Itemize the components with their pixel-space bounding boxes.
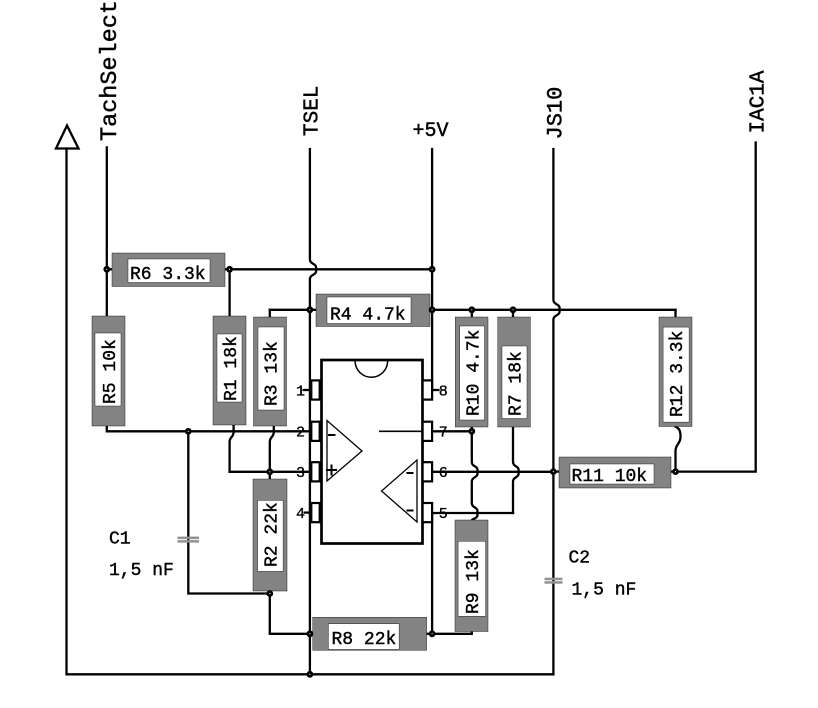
svg-text:1: 1	[296, 383, 305, 400]
svg-text:6: 6	[439, 465, 448, 482]
svg-text:4: 4	[296, 506, 305, 523]
svg-text:R10 4.7k: R10 4.7k	[465, 330, 485, 416]
svg-text:R6 3.3k: R6 3.3k	[130, 265, 206, 285]
svg-text:R9 13k: R9 13k	[464, 549, 484, 614]
svg-text:7: 7	[439, 425, 448, 442]
svg-text:R2 22k: R2 22k	[263, 502, 283, 567]
svg-text:R8 22k: R8 22k	[332, 630, 397, 650]
svg-text:TSEL: TSEL	[302, 86, 325, 136]
svg-text:R4 4.7k: R4 4.7k	[330, 306, 406, 326]
svg-text:R11 10k: R11 10k	[572, 467, 648, 487]
svg-text:IAC1A: IAC1A	[748, 70, 771, 133]
svg-text:1,5 nF: 1,5 nF	[109, 561, 174, 581]
svg-text:TachSelect: TachSelect	[97, 0, 124, 141]
svg-text:1,5 nF: 1,5 nF	[572, 581, 637, 601]
svg-text:8: 8	[439, 383, 448, 400]
svg-text:3: 3	[296, 465, 305, 482]
svg-text:2: 2	[296, 425, 305, 442]
svg-text:5: 5	[439, 506, 448, 523]
svg-text:R7 18k: R7 18k	[507, 351, 527, 416]
svg-text:+5V: +5V	[413, 120, 449, 143]
svg-text:C2: C2	[569, 549, 591, 569]
svg-text:R3 13k: R3 13k	[263, 341, 283, 406]
svg-text:R1 18k: R1 18k	[222, 336, 242, 401]
svg-text:C1: C1	[109, 530, 131, 550]
svg-text:R12 3.3k: R12 3.3k	[668, 331, 688, 417]
svg-text:R5 10k: R5 10k	[101, 339, 121, 404]
svg-text:JS10: JS10	[544, 87, 569, 140]
